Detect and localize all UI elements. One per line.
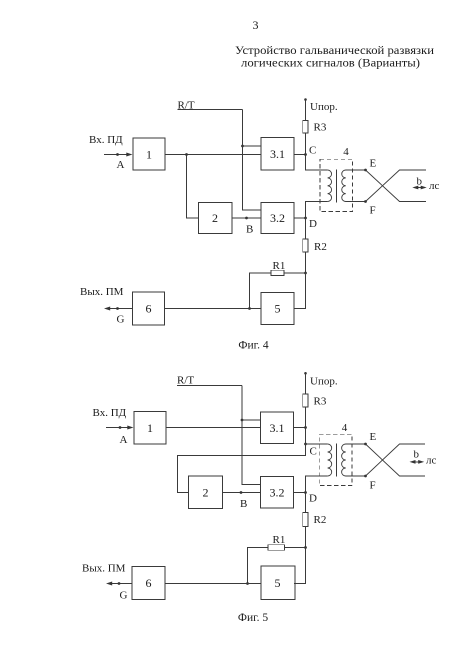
node F dot (fig5) [364,475,367,478]
svg-text:5: 5 [275,302,281,316]
wire block1 to 3.1 (fig4) [165,154,261,156]
wire secondary bottom to F (fig5) [346,475,366,477]
svg-text:R1: R1 [273,534,286,546]
transformer secondary winding (fig4) [342,170,346,202]
wire Uпор to R3 (fig4) [305,100,307,121]
node E dot (fig5) [364,443,367,446]
wire D to R2 (fig4) [305,218,307,239]
block 3.1 (fig5) [261,412,294,444]
transformer primary winding (fig4) [328,170,332,202]
wire R/T horizontal (fig5) [177,385,242,387]
wire Uпор to R3 (fig5) [305,373,307,394]
svg-text:R1: R1 [273,260,286,272]
block 1 (fig4) [133,138,165,170]
node A dot (fig4) [116,153,119,156]
resistor R2 (fig4) [303,239,308,252]
transformer 4 dashed box (fig5) [319,434,352,485]
wire block5 to block6 (fig5) [165,583,261,585]
junction R1 right (fig4) [304,272,307,275]
wire R2 to R1 junction (fig4) [305,252,307,273]
block 5 (fig5) [261,566,295,600]
line arrow both ways (fig4) [415,187,424,189]
wire 3.2 output to D (fig5) [294,492,306,494]
arrowhead right of b-arrow (fig4) [421,186,427,190]
node D dot (fig5) [304,491,307,494]
wire block1 to 3.1 (fig5) [166,427,261,429]
wire 3.1 output to C (fig4) [294,154,306,156]
svg-text:G: G [117,314,125,326]
resistor R1 (fig4) [271,270,284,275]
svg-text:D: D [309,218,317,230]
resistor R1 (fig5) [268,545,285,551]
svg-text:2: 2 [212,211,218,225]
transformer core (fig5) [336,443,338,476]
block 1 (fig5) [134,412,166,445]
svg-text:3.1: 3.1 [270,421,285,435]
block 2 (fig4) [199,203,233,234]
wire 3.2 output to D (fig4) [294,217,306,219]
arrowhead output (fig5) [106,582,112,586]
wire block2 to 3.2 (fig5) [223,492,261,494]
wire input A (fig4) [104,154,127,156]
svg-text:1: 1 [147,421,153,435]
svg-text:Фиг. 4: Фиг. 4 [238,340,268,352]
svg-text:C: C [310,446,317,458]
svg-text:4: 4 [342,422,348,434]
svg-text:Uпор.: Uпор. [310,101,338,113]
node G dot (fig5) [118,582,121,585]
svg-text:Вх. ПД: Вх. ПД [89,134,123,146]
svg-text:В: В [240,498,247,510]
wire R1 right segment (fig4) [284,272,306,274]
wire C to transformer primary top (fig5) [306,443,328,445]
svg-text:Фиг. 5: Фиг. 5 [238,612,268,624]
junction R/T tap to 3.1 (fig4) [241,145,244,148]
svg-text:3.2: 3.2 [270,211,285,225]
junction on main line (fig4) [185,153,188,156]
wire branch to block2 (fig4) [187,155,199,219]
svg-text:лс: лс [429,180,439,192]
wire crossover E down (fig5) [366,444,426,476]
svg-text:E: E [370,158,377,170]
resistor R3 (fig5) [303,394,308,407]
svg-text:А: А [120,434,128,446]
block 3.2 (fig4) [261,203,294,234]
wire R1 right segment (fig5) [284,547,306,549]
wire block2 to 3.2 (fig4) [232,217,261,219]
Uпор supply tip dot (fig4) [304,98,307,101]
svg-text:6: 6 [146,302,152,316]
wire R/T tap to 3.1 upper input (fig5) [242,419,261,421]
arrowhead left of b-arrow (fig4) [412,186,418,190]
svg-text:G: G [120,590,128,602]
svg-text:3.1: 3.1 [270,147,285,161]
block 5 (fig4) [261,293,294,325]
line arrow both ways (fig5) [412,461,422,463]
wire crossover F up (fig5) [366,444,426,476]
arrowhead input (fig5) [127,426,133,430]
transformer primary winding (fig5) [328,444,332,476]
Uпор supply tip dot (fig5) [304,372,307,375]
block 6 (fig5) [132,567,165,600]
wire C to block2 input (fig5) [178,444,306,493]
wire R/T vertical bus (fig4) [243,110,262,211]
svg-text:Вх. ПД: Вх. ПД [93,407,127,419]
svg-text:6: 6 [146,576,152,590]
svg-text:R/T: R/T [177,375,194,387]
resistor R3 (fig4) [303,121,308,134]
node D dot (fig4) [304,217,307,220]
svg-text:Вых. ПМ: Вых. ПМ [82,563,126,575]
svg-text:F: F [370,480,376,492]
svg-text:1: 1 [146,148,152,162]
wire right vertical into block5 (fig4) [294,273,306,309]
svg-text:2: 2 [203,486,209,500]
transformer core (fig4) [336,169,338,202]
block 2 (fig5) [189,476,223,509]
wire secondary top to E (fig4) [346,169,366,171]
svg-text:C: C [309,145,316,157]
svg-text:Uпор.: Uпор. [310,376,338,388]
wire R/T horizontal (fig4) [178,109,243,111]
wire D up to primary bottom (fig5) [306,476,328,493]
wire 3.1 output to R3 junction (fig5) [294,427,306,429]
wire D to R2 (fig5) [305,493,307,513]
svg-text:R2: R2 [314,241,327,253]
svg-text:R3: R3 [314,396,327,408]
node E dot (fig4) [364,169,367,172]
node F dot (fig4) [364,200,367,203]
junction 3.1 out dot (fig5) [304,426,307,429]
arrowhead output (fig4) [104,307,110,311]
node G dot (fig4) [116,307,119,310]
block 3.2 (fig5) [261,477,294,509]
arrowhead input (fig4) [126,153,132,157]
svg-text:R3: R3 [314,122,327,134]
node B dot (fig5) [240,491,243,494]
block 6 (fig4) [133,292,165,325]
svg-text:5: 5 [275,576,281,590]
svg-text:В: В [246,224,253,236]
wire R/T tap to 3.1 upper input (fig4) [243,145,262,147]
svg-text:лс: лс [426,455,436,467]
wire secondary top to E (fig5) [346,443,366,445]
wire R3 to C (fig5) [305,407,307,444]
junction R/T tap to 3.1 (fig5) [241,419,244,422]
wire input A (fig5) [106,427,128,429]
svg-text:3.2: 3.2 [270,486,285,500]
svg-text:4: 4 [343,146,349,158]
svg-text:F: F [370,205,376,217]
svg-text:R2: R2 [314,514,327,526]
node A dot (fig5) [119,426,122,429]
block 3.1 (fig4) [261,138,294,171]
svg-text:Вых. ПМ: Вых. ПМ [80,286,124,298]
node C dot (fig4) [304,153,307,156]
wire R3 to C (fig4) [305,133,307,155]
svg-text:E: E [370,431,377,443]
svg-text:b: b [417,176,423,188]
wire crossover E down (fig4) [366,170,427,202]
junction R1 left on wire (fig4) [248,307,251,310]
node C dot (fig5) [304,443,307,446]
svg-text:логических сигналов (Варианты): логических сигналов (Варианты) [241,56,420,70]
wire block5 to block6 (fig4) [165,308,262,310]
wire secondary bottom to F (fig4) [346,201,366,203]
arrowhead left of b-arrow (fig5) [410,460,416,464]
wire crossover F up (fig4) [366,170,427,202]
resistor R2 (fig5) [303,513,308,527]
wire right vertical into block5 (fig5) [294,548,306,584]
wire R1 left segment down (fig4) [250,273,272,309]
wire output G (fig4) [110,308,133,310]
wire R1 left segment down (fig5) [248,548,269,584]
junction R1 right (fig5) [304,546,307,549]
wire R/T vertical bus (fig5) [242,386,261,485]
svg-text:3: 3 [253,18,259,32]
node B dot (fig4) [245,217,248,220]
transformer secondary winding (fig5) [342,444,346,476]
svg-text:А: А [117,159,125,171]
wire primary bottom to D (fig4) [306,202,328,219]
wire C to transformer primary top (fig4) [306,155,328,171]
wire output G (fig5) [112,583,132,585]
svg-text:b: b [414,449,420,461]
transformer 4 dashed box (fig4) [320,159,353,211]
svg-text:D: D [309,493,317,505]
junction R1 left on wire (fig5) [246,582,249,585]
wire R2 to R1 junction (fig5) [305,527,307,548]
arrowhead right of b-arrow (fig5) [418,460,424,464]
